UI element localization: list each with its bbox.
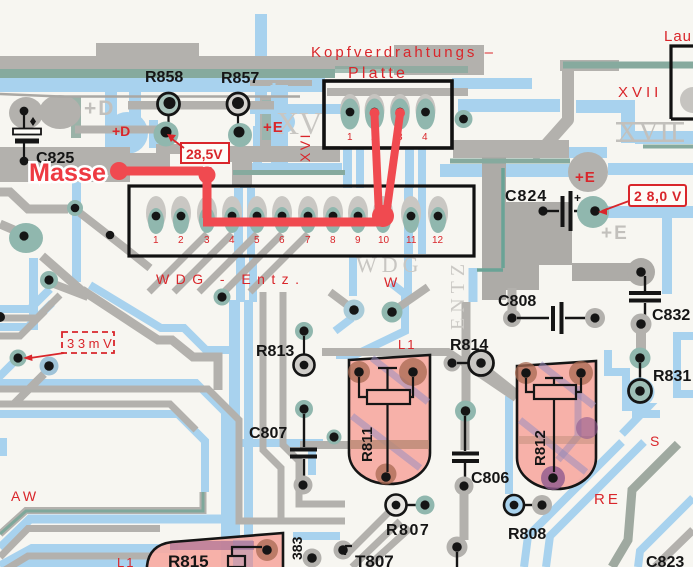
svg-text:R814: R814 [450,337,488,354]
svg-text:W: W [384,274,398,290]
svg-text:S: S [650,433,659,449]
svg-text:R813: R813 [256,343,294,360]
svg-text:R831: R831 [653,368,691,385]
svg-text:XVII: XVII [617,117,680,148]
svg-text:6: 6 [279,235,285,246]
svg-text:AW: AW [11,488,39,504]
svg-text:R858: R858 [145,69,183,86]
svg-text:5: 5 [254,235,260,246]
svg-text:C823: C823 [646,554,684,567]
svg-text:Platte: Platte [348,65,408,82]
svg-text:L1: L1 [398,337,416,352]
svg-text:4: 4 [229,235,235,246]
svg-text:12: 12 [432,235,444,246]
svg-text:T807: T807 [355,552,394,567]
svg-text:+E: +E [575,169,596,186]
svg-text:1: 1 [153,235,159,246]
svg-text:1: 1 [347,132,353,143]
svg-text:+: + [574,191,581,205]
svg-text:C824: C824 [505,188,547,205]
svg-text:ENTZ: ENTZ [447,259,469,330]
svg-text:XVI: XVI [297,132,313,162]
svg-text:3 3 m V: 3 3 m V [67,336,112,351]
svg-text:7: 7 [305,235,311,246]
svg-text:+D: +D [112,123,130,139]
svg-text:383: 383 [289,536,305,560]
svg-text:+D: +D [84,97,115,120]
svg-text:10: 10 [378,235,390,246]
svg-text:8: 8 [330,235,336,246]
svg-text:11: 11 [406,235,417,246]
svg-text:2: 2 [178,235,184,246]
svg-text:L1: L1 [117,555,135,567]
svg-text:9: 9 [355,235,361,246]
svg-text:R812: R812 [532,430,549,466]
svg-text:R807: R807 [386,522,430,539]
svg-text:R811: R811 [359,427,376,462]
svg-text:RE: RE [594,491,621,508]
svg-text:2 8,0 V: 2 8,0 V [634,188,682,204]
svg-text:R857: R857 [221,70,259,87]
svg-text:C806: C806 [471,470,509,487]
svg-text:Lau: Lau [664,28,692,45]
svg-text:XVII: XVII [618,84,662,101]
svg-text:28,5V: 28,5V [186,146,223,162]
svg-text:Masse: Masse [29,159,106,187]
svg-text:R815: R815 [168,552,209,567]
svg-text:3: 3 [204,235,210,246]
svg-text:+E: +E [601,223,629,244]
svg-text:C832: C832 [652,307,690,324]
svg-text:C808: C808 [498,293,536,310]
svg-text:Kopfverdrahtungs –: Kopfverdrahtungs – [311,44,496,61]
svg-text:C807: C807 [249,425,287,442]
svg-text:R808: R808 [508,526,546,543]
svg-text:4: 4 [422,132,428,143]
svg-text:+E: +E [263,119,284,136]
